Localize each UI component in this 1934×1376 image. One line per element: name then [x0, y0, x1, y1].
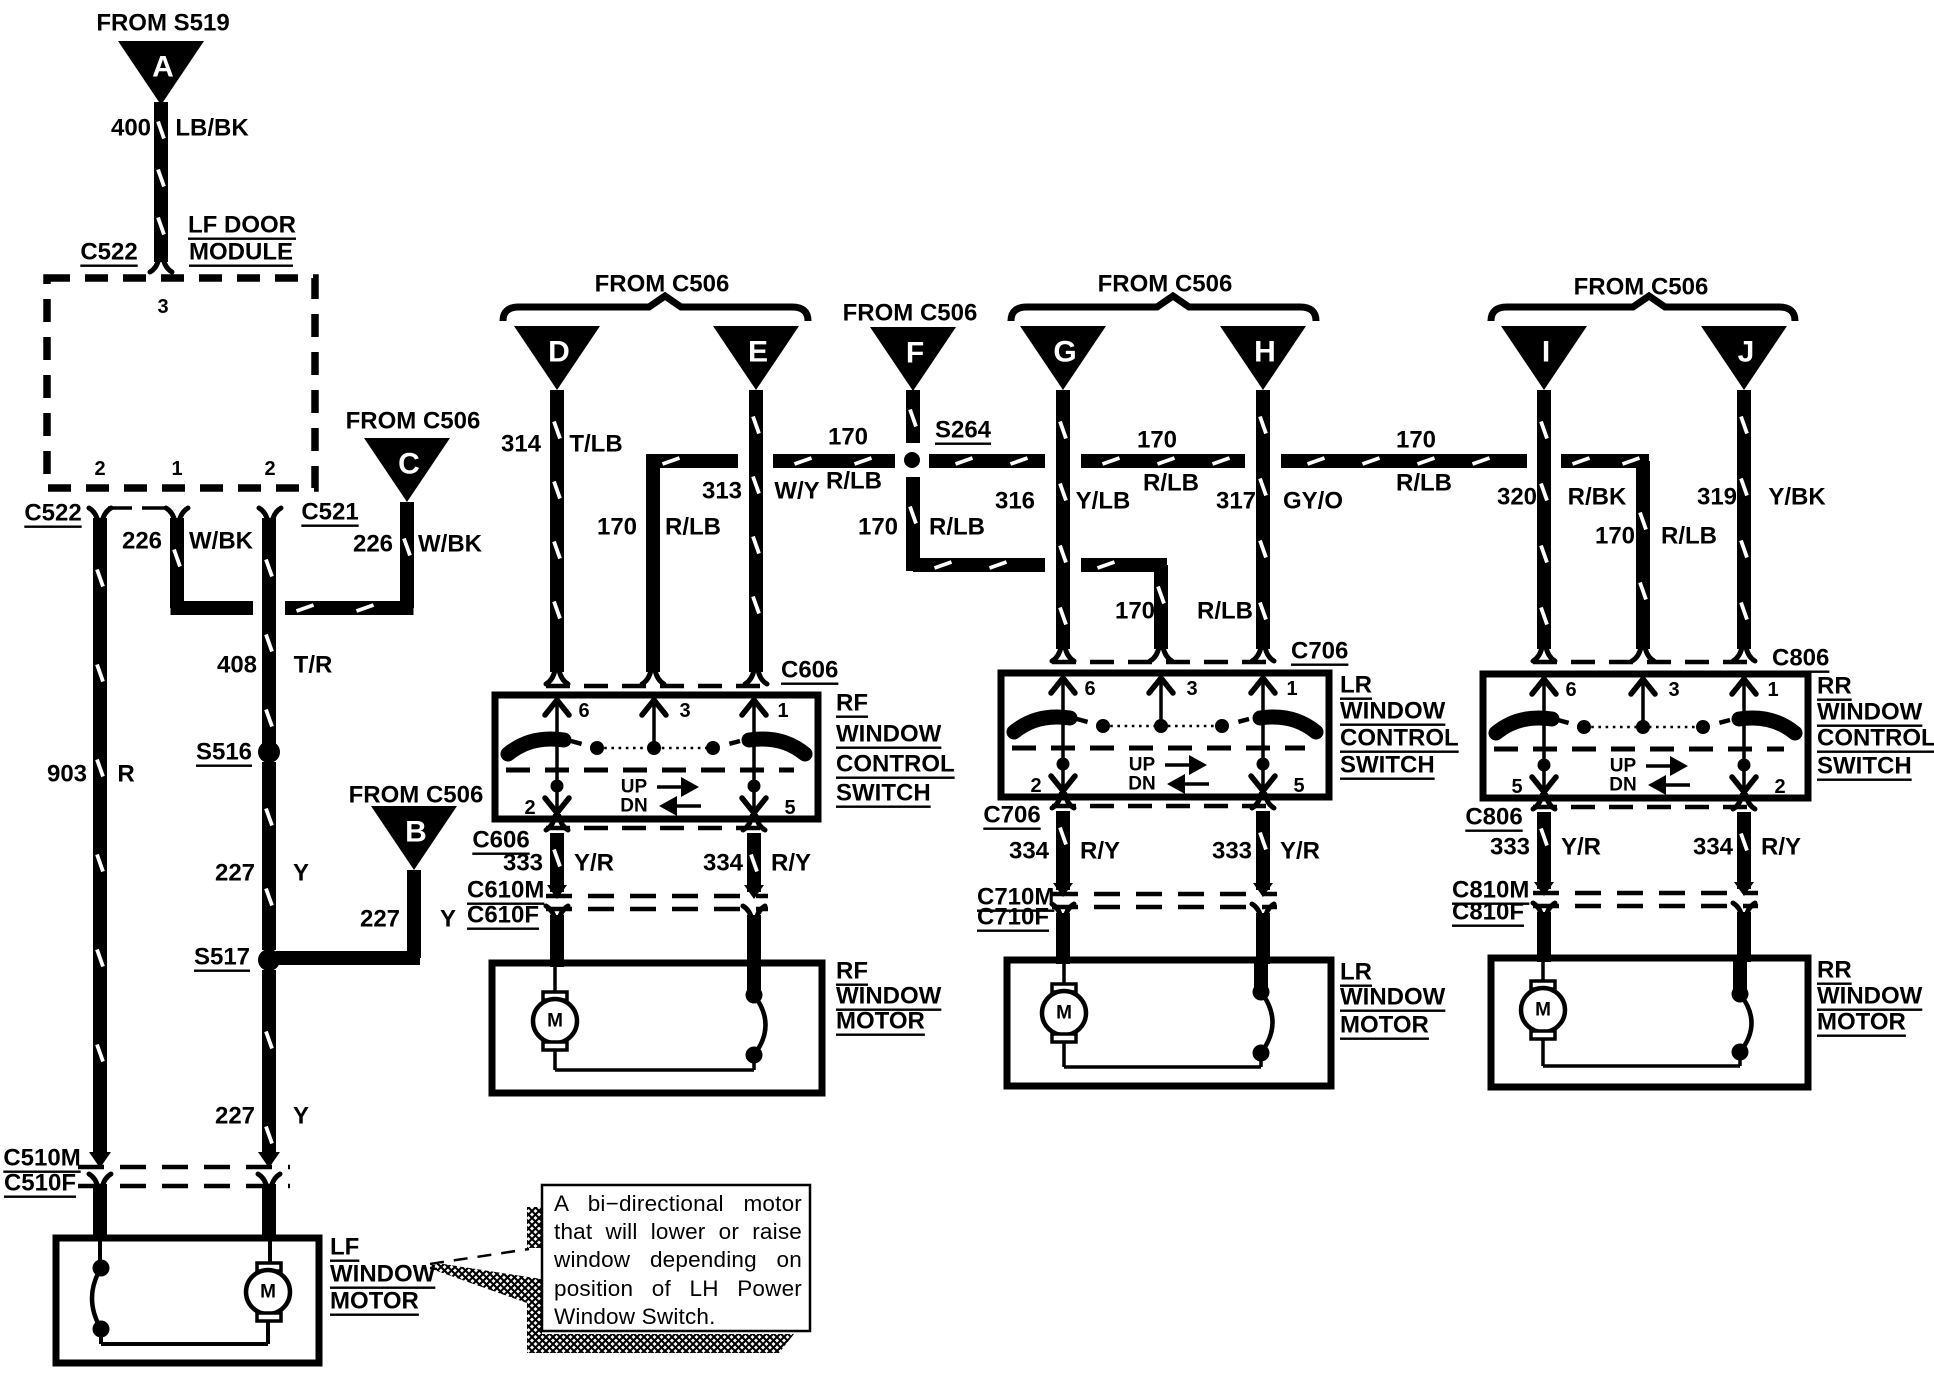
svg-text:227: 227 [215, 860, 255, 887]
svg-text:CONTROL: CONTROL [1340, 725, 1459, 752]
svg-text:Y/LB: Y/LB [1076, 488, 1131, 515]
svg-text:FROM S519: FROM S519 [96, 10, 229, 37]
wire 316 Y/LB (G) [1052, 390, 1074, 661]
svg-text:2: 2 [524, 797, 535, 819]
label FROM C506 (C) [346, 408, 481, 435]
svg-text:170: 170 [1396, 427, 1436, 454]
wire 333 Y/R [1252, 811, 1274, 964]
svg-text:T/LB: T/LB [569, 431, 622, 458]
connector triangle E [713, 326, 799, 390]
connector C606 (top) [546, 657, 838, 687]
svg-text:T/R: T/R [294, 652, 333, 679]
svg-text:SWITCH: SWITCH [1340, 752, 1435, 779]
svg-text:LR: LR [1340, 672, 1372, 699]
RR switch bottom pins 5,2 [1511, 776, 1785, 798]
LR switch pin 1 [1251, 677, 1298, 791]
svg-text:S517: S517 [194, 944, 250, 971]
svg-text:227: 227 [360, 906, 400, 933]
splice S517 [194, 944, 280, 972]
svg-text:C806: C806 [1772, 645, 1829, 672]
svg-text:DN: DN [620, 796, 647, 817]
wire 170 R/LB bus (S264 to RR drop) [929, 458, 1654, 661]
wire 170 R/LB bus (S264 left arm + RF drop) [642, 458, 895, 684]
LR switch contact row [1077, 719, 1249, 733]
svg-text:C710F: C710F [977, 904, 1049, 931]
svg-text:C: C [398, 448, 420, 481]
label 319 Y/BK [1697, 484, 1826, 511]
connector forks below module + tie line [89, 508, 281, 522]
connector C706 (bottom) [983, 794, 1277, 829]
note callout dashed lines [430, 1249, 529, 1274]
wire 334 R/Y [743, 833, 765, 967]
splice S516 [196, 739, 280, 766]
svg-text:2: 2 [264, 458, 275, 480]
connector triangle H [1220, 326, 1306, 390]
LR switch bottom pins 2,5 [1030, 775, 1304, 797]
label 226 W/BK right [353, 531, 483, 558]
wire 334 R/Y [1052, 811, 1074, 964]
LR switch dashed position line [1012, 746, 1305, 751]
note text [554, 1190, 802, 1331]
label 170 R/LB (RR drop) [1595, 523, 1717, 550]
label FROM C506 (B) [349, 782, 484, 809]
svg-text:170: 170 [828, 424, 868, 451]
svg-text:R/BK: R/BK [1568, 484, 1627, 511]
svg-text:408: 408 [217, 652, 257, 679]
label 170 R/LB (LR drop) [1115, 598, 1253, 625]
module pin 2 left [94, 458, 105, 480]
label 317 GY/O [1216, 488, 1343, 515]
svg-text:333: 333 [1212, 838, 1252, 865]
RR switch UP/DN arrows [1609, 756, 1690, 796]
labels 334 R/Y / 333 Y/R [1009, 838, 1320, 865]
svg-text:WINDOW: WINDOW [1340, 698, 1446, 725]
svg-text:MOTOR: MOTOR [330, 1288, 419, 1315]
svg-text:Y: Y [293, 1103, 309, 1130]
label 227 Y lower [215, 1103, 309, 1130]
wire 313 W/Y (E) [745, 390, 767, 684]
module pin 2 right [264, 458, 275, 480]
svg-text:226: 226 [353, 531, 393, 558]
LF window motor box [56, 1238, 319, 1363]
connector C521 label [301, 499, 358, 526]
svg-text:R/LB: R/LB [929, 514, 985, 541]
svg-text:2: 2 [94, 458, 105, 480]
svg-text:B: B [405, 816, 427, 849]
label 170 R/LB (F drop) [858, 514, 985, 541]
svg-text:SWITCH: SWITCH [836, 780, 931, 807]
svg-text:C706: C706 [983, 802, 1040, 829]
connector triangle F [870, 327, 956, 391]
label RR WINDOW CONTROL SWITCH [1817, 673, 1934, 780]
svg-text:MODULE: MODULE [189, 239, 293, 266]
svg-text:C810F: C810F [1452, 899, 1524, 926]
svg-text:GY/O: GY/O [1283, 488, 1343, 515]
RR window motor box [1491, 958, 1808, 1087]
svg-text:Y: Y [440, 906, 456, 933]
RR switch pin 1 [1732, 678, 1779, 792]
connector triangle D [514, 326, 600, 390]
note shadow left bar [527, 1207, 542, 1248]
svg-text:Y/R: Y/R [574, 850, 614, 877]
svg-text:M: M [1056, 1003, 1072, 1024]
svg-text:H: H [1254, 336, 1276, 369]
connector C522 label below box [24, 500, 81, 527]
label 170 R/LB (bus H-I) [1396, 427, 1452, 497]
RF switch paddle right [749, 739, 805, 754]
svg-text:170: 170 [1115, 598, 1155, 625]
RF switch pin 1 [742, 699, 789, 813]
LR window motor box [1007, 960, 1331, 1086]
RF switch pin 3 [642, 699, 691, 748]
splice S264 [904, 417, 992, 469]
svg-text:S516: S516 [196, 739, 252, 766]
svg-text:2: 2 [1774, 776, 1785, 798]
svg-text:903: 903 [47, 761, 87, 788]
wire 334 R/Y [1733, 812, 1755, 962]
svg-text:WINDOW: WINDOW [836, 983, 942, 1010]
RR switch pin dots [1538, 759, 1751, 772]
svg-text:170: 170 [858, 514, 898, 541]
wire 226 W/BK (pin1 to elbow) [171, 518, 254, 608]
svg-text:UP: UP [1610, 756, 1637, 777]
svg-text:R/LB: R/LB [1143, 470, 1199, 497]
svg-text:334: 334 [1009, 838, 1050, 865]
label 170 R/LB (bus at S264) [826, 424, 882, 495]
svg-text:SWITCH: SWITCH [1817, 753, 1912, 780]
RF window motor box [492, 963, 822, 1093]
wire 226 W/BK from C [285, 502, 414, 611]
LF motor M [101, 1238, 290, 1344]
connector triangle G [1020, 326, 1106, 390]
svg-text:170: 170 [597, 514, 637, 541]
svg-text:C510F: C510F [4, 1170, 76, 1197]
RF window control switch box [495, 695, 818, 819]
svg-text:DN: DN [1609, 775, 1636, 796]
RF switch bottom pins 2,5 [524, 797, 795, 819]
RR motor M [1521, 958, 1740, 1066]
note shadow bottom bar [527, 1334, 794, 1353]
svg-text:R/LB: R/LB [1197, 598, 1253, 625]
svg-text:W/BK: W/BK [189, 528, 254, 555]
label 227 Y (B) [360, 906, 456, 933]
svg-text:LF DOOR: LF DOOR [188, 212, 296, 239]
brace FROM C506 (I,J) [1491, 274, 1795, 322]
connector triangle B [371, 806, 457, 870]
label FROM C506 (F) [843, 300, 978, 327]
svg-text:D: D [548, 336, 570, 369]
svg-text:Y: Y [293, 860, 309, 887]
svg-text:G: G [1053, 336, 1076, 369]
svg-text:MOTOR: MOTOR [1817, 1009, 1906, 1036]
RR window control switch box [1483, 674, 1808, 798]
svg-text:W/BK: W/BK [418, 531, 483, 558]
svg-text:C606: C606 [781, 657, 838, 684]
svg-text:319: 319 [1697, 484, 1737, 511]
RF switch pin dots [551, 780, 761, 793]
svg-text:R/LB: R/LB [1396, 470, 1452, 497]
svg-text:313: 313 [702, 478, 742, 505]
svg-text:333: 333 [503, 850, 543, 877]
svg-text:LR: LR [1340, 959, 1372, 986]
wire 314 T/LB (D) [546, 390, 568, 684]
LR switch paddle right [1260, 717, 1316, 732]
RR motor switch contact [1732, 958, 1752, 1066]
connector C606 (bottom) [472, 816, 768, 854]
svg-text:1: 1 [171, 458, 182, 480]
svg-text:3: 3 [1186, 678, 1197, 700]
connector C806 (top) [1533, 645, 1829, 672]
svg-text:WINDOW: WINDOW [836, 721, 942, 748]
svg-text:F: F [906, 337, 924, 370]
svg-text:5: 5 [784, 797, 795, 819]
svg-text:RF: RF [836, 958, 868, 985]
svg-text:2: 2 [1030, 775, 1041, 797]
connector C610M / C610F [467, 877, 768, 929]
label RR WINDOW MOTOR [1817, 957, 1923, 1036]
svg-text:1: 1 [1767, 679, 1778, 701]
svg-text:170: 170 [1137, 427, 1177, 454]
svg-text:A: A [152, 51, 174, 84]
svg-text:R/LB: R/LB [826, 468, 882, 495]
svg-text:C706: C706 [1291, 638, 1348, 665]
wire 408 T/R [266, 518, 272, 748]
label LF WINDOW MOTOR [330, 1234, 436, 1315]
RF switch pin 6 [545, 699, 590, 813]
LR switch pin 3 [1149, 677, 1198, 726]
label 227 Y upper [215, 860, 309, 887]
label 320 R/BK [1497, 484, 1627, 511]
svg-text:WINDOW: WINDOW [1817, 699, 1923, 726]
label 314 T/LB [501, 431, 623, 458]
label LR WINDOW CONTROL SWITCH [1340, 672, 1459, 779]
wire 319 Y/BK (J) [1733, 390, 1755, 661]
svg-text:R: R [117, 761, 134, 788]
note shadow left bar lower [527, 1290, 542, 1336]
RF motor M [533, 963, 754, 1070]
brace FROM C506 (D,E) [503, 271, 808, 322]
svg-text:RR: RR [1817, 673, 1852, 700]
svg-text:M: M [260, 1282, 276, 1303]
labels 333 Y/R / 334 R/Y [503, 850, 811, 877]
label C522 top [80, 239, 137, 266]
label LF DOOR MODULE [188, 212, 296, 266]
module pin 1 [171, 458, 182, 480]
RF switch dashed position line [506, 768, 794, 773]
RR switch pin 6 [1532, 678, 1577, 792]
svg-text:C522: C522 [24, 500, 81, 527]
note box border [542, 1185, 810, 1331]
svg-text:334: 334 [703, 850, 744, 877]
brace FROM C506 (G,H) [1011, 271, 1316, 322]
svg-text:CONTROL: CONTROL [836, 751, 955, 778]
svg-text:5: 5 [1511, 776, 1522, 798]
svg-text:1: 1 [777, 700, 788, 722]
svg-text:C610M: C610M [467, 877, 544, 904]
svg-text:226: 226 [122, 528, 162, 555]
wire 170 R/LB (F elbow to LR drop) [910, 477, 1172, 661]
svg-text:W/Y: W/Y [774, 478, 819, 505]
wire 317 GY/O (H) [1252, 390, 1274, 661]
wire 333 Y/R [1533, 812, 1555, 962]
svg-text:6: 6 [578, 700, 589, 722]
wire 320 R/BK (I) [1533, 390, 1555, 661]
labels 333 Y/R / 334 R/Y [1490, 834, 1801, 861]
svg-text:5: 5 [1293, 775, 1304, 797]
svg-text:FROM C506: FROM C506 [1574, 274, 1709, 301]
LR motor M [1042, 960, 1261, 1067]
connector C710M / C710F [977, 884, 1277, 931]
svg-text:R/LB: R/LB [1661, 523, 1717, 550]
svg-text:227: 227 [215, 1103, 255, 1130]
svg-text:R/Y: R/Y [1761, 834, 1801, 861]
svg-text:WINDOW: WINDOW [1340, 984, 1446, 1011]
svg-text:LB/BK: LB/BK [175, 115, 249, 142]
svg-text:J: J [1738, 336, 1755, 369]
RF motor switch contact [746, 963, 766, 1070]
svg-text:170: 170 [1595, 523, 1635, 550]
RR switch pin 3 [1631, 678, 1680, 727]
LF door module dashed box [47, 278, 315, 488]
svg-text:UP: UP [1129, 755, 1156, 776]
wire 227 Y (S516 to S517) [266, 762, 272, 950]
wire 903 R [89, 518, 111, 1238]
svg-text:C521: C521 [301, 499, 358, 526]
svg-text:Y/BK: Y/BK [1768, 484, 1826, 511]
RF switch UP/DN arrows [620, 777, 701, 817]
svg-text:MOTOR: MOTOR [1340, 1012, 1429, 1039]
svg-text:M: M [1535, 1000, 1551, 1021]
label FROM S519 [96, 10, 229, 37]
connector triangle C [364, 438, 450, 502]
module pin 3 [157, 296, 168, 318]
svg-text:LF: LF [330, 1234, 359, 1261]
svg-text:3: 3 [1668, 679, 1679, 701]
label 170 R/LB (RF drop) [597, 514, 721, 541]
LR window control switch box [1001, 673, 1329, 797]
label RF WINDOW MOTOR [836, 958, 942, 1035]
RF switch paddle left [508, 739, 564, 754]
LR switch paddle left [1014, 717, 1070, 732]
svg-text:FROM C506: FROM C506 [595, 271, 730, 298]
svg-text:Y/R: Y/R [1280, 838, 1320, 865]
svg-text:FROM C506: FROM C506 [1098, 271, 1233, 298]
svg-text:314: 314 [501, 431, 542, 458]
LF motor switch contact [92, 1238, 110, 1344]
svg-text:C510M: C510M [3, 1145, 80, 1172]
svg-text:C610F: C610F [467, 902, 539, 929]
wire from F through S264 [910, 390, 916, 443]
svg-text:FROM C506: FROM C506 [346, 408, 481, 435]
label LR WINDOW MOTOR [1340, 959, 1446, 1039]
svg-text:Y/R: Y/R [1561, 834, 1601, 861]
svg-text:C522: C522 [80, 239, 137, 266]
LR switch pin 6 [1051, 677, 1096, 791]
LR switch UP/DN arrows [1128, 755, 1209, 795]
svg-text:WINDOW: WINDOW [330, 1261, 436, 1288]
svg-text:C806: C806 [1465, 804, 1522, 831]
svg-text:6: 6 [1565, 679, 1576, 701]
RR switch contact row [1558, 720, 1730, 734]
svg-text:320: 320 [1497, 484, 1537, 511]
svg-text:DN: DN [1128, 774, 1155, 795]
label 170 R/LB (bus G-H) [1137, 427, 1199, 497]
connector C706 (top) [1052, 638, 1348, 665]
svg-text:6: 6 [1084, 678, 1095, 700]
RR switch paddle left [1496, 718, 1552, 733]
wire 227 Y from B [276, 870, 420, 958]
svg-text:333: 333 [1490, 834, 1530, 861]
svg-text:R/LB: R/LB [665, 514, 721, 541]
label RF WINDOW CONTROL SWITCH [836, 690, 955, 807]
svg-text:316: 316 [995, 488, 1035, 515]
label 400 LB/BK [111, 115, 249, 142]
label 316 Y/LB [995, 488, 1130, 515]
connector triangle J [1701, 326, 1787, 390]
connector C810M / C810F [1452, 877, 1758, 926]
LR motor switch contact [1253, 960, 1273, 1067]
svg-text:400: 400 [111, 115, 151, 142]
svg-text:CONTROL: CONTROL [1817, 725, 1934, 752]
svg-text:3: 3 [157, 296, 168, 318]
svg-text:3: 3 [679, 700, 690, 722]
RR switch dashed position line [1494, 747, 1784, 752]
svg-text:334: 334 [1693, 834, 1734, 861]
svg-text:MOTOR: MOTOR [836, 1008, 925, 1035]
svg-text:FROM C506: FROM C506 [349, 782, 484, 809]
label 408 T/R [217, 652, 332, 679]
connector C510M / C510F [3, 1145, 290, 1197]
svg-text:RF: RF [836, 690, 868, 717]
RR switch paddle right [1739, 718, 1795, 733]
svg-text:I: I [1542, 336, 1550, 369]
connector C806 (bottom) [1465, 795, 1758, 831]
svg-text:S264: S264 [935, 417, 992, 444]
svg-text:M: M [547, 1011, 563, 1032]
svg-text:WINDOW: WINDOW [1817, 983, 1923, 1010]
connector triangle A [118, 41, 204, 105]
svg-text:1: 1 [1286, 678, 1297, 700]
svg-text:RR: RR [1817, 957, 1852, 984]
wire 400 LB/BK [150, 102, 172, 272]
wire 333 Y/R [546, 833, 568, 967]
LR switch pin dots [1057, 758, 1270, 771]
note shadow wedge [437, 1263, 541, 1303]
svg-text:UP: UP [621, 777, 648, 798]
wire 227 Y (S517 to C510) [258, 970, 280, 1238]
label 313 W/Y [702, 478, 820, 505]
svg-text:E: E [748, 336, 768, 369]
RF switch contact row [571, 741, 740, 755]
svg-text:317: 317 [1216, 488, 1256, 515]
svg-text:FROM C506: FROM C506 [843, 300, 978, 327]
label 226 W/BK left [122, 528, 254, 555]
svg-text:R/Y: R/Y [771, 850, 811, 877]
label 903 R [47, 761, 135, 788]
svg-text:R/Y: R/Y [1080, 838, 1120, 865]
connector triangle I [1501, 326, 1587, 390]
